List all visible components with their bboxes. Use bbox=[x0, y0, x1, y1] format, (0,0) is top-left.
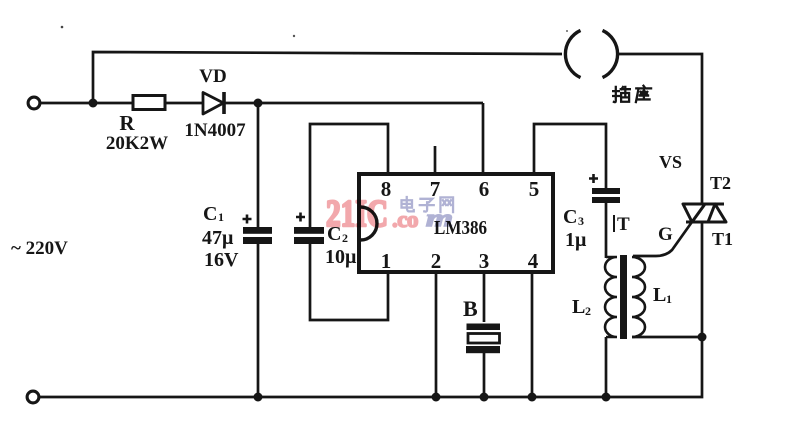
svg-text:1N4007: 1N4007 bbox=[184, 120, 246, 141]
svg-text:G: G bbox=[658, 224, 673, 245]
svg-text:1: 1 bbox=[666, 292, 672, 306]
svg-text:L: L bbox=[572, 296, 585, 318]
svg-text:1: 1 bbox=[381, 249, 392, 273]
svg-text:16V: 16V bbox=[204, 249, 239, 271]
svg-text:C: C bbox=[203, 203, 217, 225]
svg-text:2: 2 bbox=[585, 304, 591, 318]
svg-text:1: 1 bbox=[218, 210, 224, 224]
svg-text:L: L bbox=[653, 284, 666, 306]
svg-text:T1: T1 bbox=[712, 229, 733, 249]
svg-text:21IC: 21IC bbox=[326, 193, 388, 235]
svg-text:2: 2 bbox=[431, 249, 442, 273]
svg-text:6: 6 bbox=[479, 177, 490, 201]
svg-text:~ 220V: ~ 220V bbox=[11, 238, 68, 259]
svg-text:VD: VD bbox=[199, 66, 226, 87]
svg-text:T2: T2 bbox=[710, 173, 731, 193]
svg-text:5: 5 bbox=[529, 177, 540, 201]
svg-text:47μ: 47μ bbox=[202, 227, 234, 249]
svg-text:VS: VS bbox=[659, 152, 682, 172]
svg-text:1μ: 1μ bbox=[565, 229, 587, 251]
svg-text:3: 3 bbox=[479, 249, 490, 273]
svg-text:4: 4 bbox=[528, 249, 539, 273]
svg-text:B: B bbox=[463, 296, 478, 321]
svg-text:C: C bbox=[563, 206, 577, 228]
svg-text:7: 7 bbox=[430, 177, 441, 201]
svg-text:R: R bbox=[119, 111, 135, 135]
svg-text:T: T bbox=[617, 214, 630, 235]
svg-text:3: 3 bbox=[578, 214, 584, 228]
svg-text:20K2W: 20K2W bbox=[106, 133, 168, 154]
svg-text:10μ: 10μ bbox=[325, 246, 357, 268]
